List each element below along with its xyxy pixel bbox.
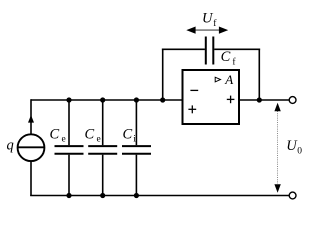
U0 measurement dotted line <box>277 111 279 184</box>
node dot output junction <box>257 97 262 102</box>
wire feedback top right <box>214 48 260 50</box>
svg-text:C: C <box>50 127 60 143</box>
wire top input net <box>31 99 183 101</box>
U0 arrow down <box>274 184 280 193</box>
node dot Ci bottom <box>134 193 139 198</box>
node dot Ce2 bottom <box>100 193 105 198</box>
label Ce1 <box>50 127 66 145</box>
node dot Ce2 top <box>100 97 105 102</box>
svg-text:U: U <box>202 11 214 27</box>
op-amp amplification triangle <box>215 77 220 82</box>
op-amp plus output sign <box>227 96 235 104</box>
capacitor Cf plates <box>206 37 214 65</box>
label Ci <box>123 127 137 145</box>
svg-text:C: C <box>221 49 231 65</box>
capacitor Ce1 bottom stub <box>68 155 70 196</box>
svg-text:C: C <box>123 127 133 143</box>
op-amp plus input sign <box>188 105 196 113</box>
node dot Ce1 bottom <box>66 193 71 198</box>
wire feedback left vertical <box>162 49 164 101</box>
label Ce2 <box>85 127 101 145</box>
op-amp minus input sign <box>190 89 198 91</box>
svg-text:q: q <box>7 138 14 154</box>
capacitor Ce1 top stub <box>68 100 70 145</box>
svg-text:0: 0 <box>297 147 302 157</box>
wire left vertical lower <box>30 161 32 196</box>
capacitor Ce2 top stub <box>102 100 104 145</box>
label Cf <box>221 49 237 68</box>
svg-text:C: C <box>85 127 95 143</box>
terminal output bottom <box>289 192 296 199</box>
node dot Ce1 top <box>66 97 71 102</box>
node dot feedback tap <box>160 97 165 102</box>
current direction arrow <box>28 115 34 123</box>
terminal output top <box>289 97 296 104</box>
op-amp U1 body <box>183 70 240 124</box>
label Uf <box>202 11 217 30</box>
svg-text:i: i <box>133 135 136 145</box>
capacitor Ce2 bottom stub <box>102 155 104 196</box>
capacitor Ce1 plates <box>55 146 84 154</box>
current source Q1 circle <box>18 134 45 161</box>
capacitor Ci plates <box>122 146 151 154</box>
wire feedback top left <box>162 48 205 50</box>
svg-text:e: e <box>62 135 66 145</box>
capacitor Ci top stub <box>135 100 137 145</box>
wire feedback right vertical <box>258 49 260 101</box>
node dot Ci top <box>134 97 139 102</box>
capacitor Ce2 plates <box>88 146 117 154</box>
U0 arrow up <box>274 103 280 112</box>
wire output <box>239 99 289 101</box>
label U0 <box>286 138 302 157</box>
svg-text:A: A <box>224 72 233 87</box>
wire left vertical upper <box>30 99 32 134</box>
Uf measurement double arrow <box>186 27 228 34</box>
capacitor Ci bottom stub <box>135 155 137 196</box>
svg-text:e: e <box>97 135 101 145</box>
wire bottom ground net <box>30 195 289 197</box>
